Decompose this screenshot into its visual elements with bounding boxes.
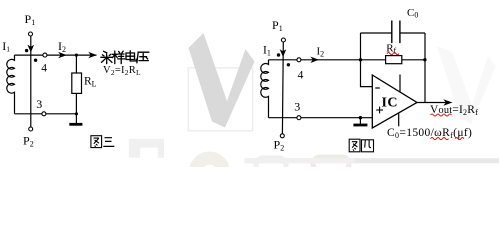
svg-text:4: 4 <box>41 62 47 74</box>
svg-text:I1: I1 <box>2 39 10 54</box>
svg-text:3: 3 <box>36 97 42 111</box>
svg-text:V2=I2RL: V2=I2RL <box>103 65 141 77</box>
svg-text:I1: I1 <box>263 45 271 58</box>
svg-text:P1: P1 <box>25 12 36 27</box>
svg-text:P2: P2 <box>23 133 34 148</box>
svg-text:4: 4 <box>298 70 304 82</box>
svg-text:3: 3 <box>294 99 300 113</box>
svg-text:I2: I2 <box>317 45 325 58</box>
svg-text:P2: P2 <box>274 137 285 152</box>
svg-text:Vout=I2Rf: Vout=I2Rf <box>430 104 478 117</box>
svg-text:I2: I2 <box>58 39 66 54</box>
svg-text:IC: IC <box>382 96 398 111</box>
svg-text:Rf: Rf <box>386 43 396 56</box>
svg-text:P1: P1 <box>272 18 283 33</box>
svg-text:RL: RL <box>84 76 97 89</box>
svg-text:C0=1500/ωRf(μf): C0=1500/ωRf(μf) <box>387 127 472 140</box>
svg-text:C0: C0 <box>407 7 418 20</box>
